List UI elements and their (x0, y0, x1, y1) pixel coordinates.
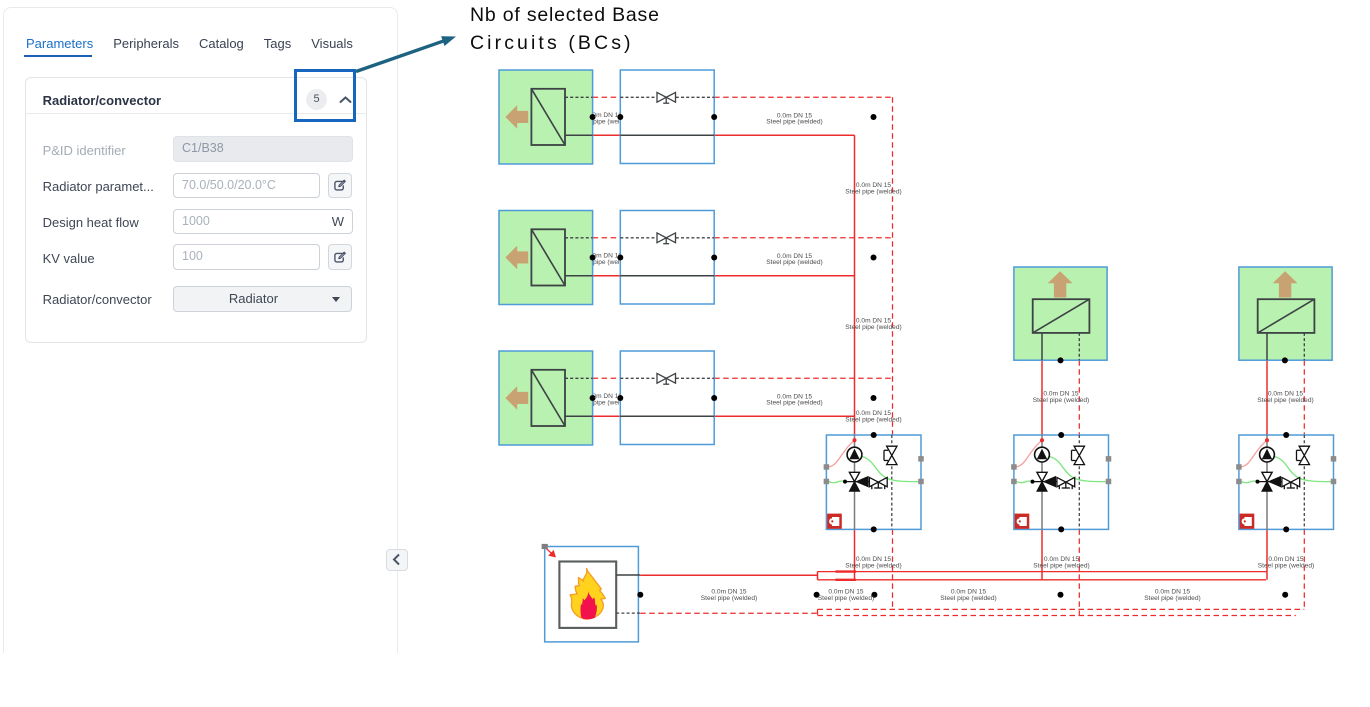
svg-text:Steel pipe (welded): Steel pipe (welded) (845, 562, 901, 569)
pipe: consumer 3 to pump group 3 (return dashed) (1303, 360, 1305, 435)
node: valve box 3 inlet (617, 395, 623, 401)
svg-text:0.0m DN 15: 0.0m DN 15 (856, 556, 892, 563)
balancing valve (1057, 477, 1075, 489)
node: valve box 2 inlet (617, 255, 623, 261)
pipe: pump group 1 to manifold (return dashed) (892, 529, 894, 609)
internal return line (dashed) (620, 237, 657, 239)
heat flow arrow (left) (505, 246, 528, 270)
parameters card (25, 77, 367, 343)
svg-text:0.0m DN 15: 0.0m DN 15 (1044, 556, 1080, 563)
stub: flow (solid) (565, 134, 593, 136)
internal return line (dashed) (620, 377, 657, 379)
thermostatic valve V3 (657, 373, 676, 384)
svg-text:0.0m DN 15: 0.0m DN 15 (777, 253, 813, 260)
radiator symbol R3 (531, 370, 565, 426)
pipe label: manifold seg 3 (1144, 589, 1200, 602)
stub: flow (solid) (565, 275, 593, 277)
pump group icon (red) (1240, 514, 1255, 529)
svg-text:Steel pipe (welded): Steel pipe (welded) (845, 324, 901, 331)
valve box 3 (blue frame) (620, 351, 714, 445)
pipe: consumer 3 to pump group 3 (flow) (1266, 360, 1268, 435)
stub: return (dashed) (1078, 333, 1080, 360)
svg-text:Steel pipe (welded): Steel pipe (welded) (701, 595, 757, 602)
stub: flow (616, 574, 640, 576)
node: consumer 2 outlet (1058, 357, 1064, 363)
top node (1283, 432, 1289, 438)
valve box 2 (blue frame) (620, 211, 714, 305)
balancing valve (869, 477, 887, 489)
insert arrow (red) (547, 549, 556, 557)
valve box 1 (blue frame) (620, 70, 714, 164)
bottom node (1283, 526, 1289, 532)
Radiator/convector dropdown row (43, 292, 152, 307)
pipe: flow valve box 3 to riser (red) (714, 415, 854, 417)
svg-text:Steel pipe (welded): Steel pipe (welded) (845, 416, 901, 423)
base circuit / pump group 1 (blue frame) (824, 432, 924, 532)
pipe: return radiator 3 to valve box (red dashed) (593, 377, 621, 379)
node on 3-way valve branch (1258, 481, 1282, 483)
pump group icon (red) (827, 514, 842, 529)
internal flow pipe (grey) (854, 435, 856, 529)
pump P3 (1260, 447, 1275, 462)
pipe label: boiler to fork (701, 589, 757, 602)
svg-text:Steel pipe (welded): Steel pipe (welded) (766, 119, 822, 126)
consumer symbol (1033, 299, 1090, 333)
pipe label: manifold seg 2 (940, 589, 996, 602)
svg-text:Steel pipe (welded): Steel pipe (welded) (766, 400, 822, 407)
sensor curve (pink) (829, 441, 854, 467)
pipe label: manifold seg 1 (818, 589, 874, 602)
stub: return (dashed) (565, 96, 593, 98)
internal flow line (620, 415, 714, 417)
node: boiler outlet (637, 592, 643, 598)
pipe: flow manifold upper (818, 571, 1268, 573)
active tab underline (24, 55, 92, 57)
stub: return (dashed) (1303, 333, 1305, 360)
stub: flow (solid) (1041, 333, 1043, 360)
pipe: return radiator 2 to valve box (red dashed) (593, 237, 621, 239)
inlet node (red) (1265, 438, 1269, 442)
pipe label (clipped): radiator 2 connection (576, 253, 632, 267)
radiator symbol R1 (531, 89, 565, 145)
pipe: return fork (817, 609, 819, 615)
pipe: return riser column 1 (dashed) (892, 97, 894, 435)
KV value row (43, 251, 95, 266)
pipe: flow radiator 2 to valve box (red) (593, 275, 621, 277)
3-way mixing valve (1037, 472, 1047, 481)
heat flow arrow (up) (1048, 271, 1073, 297)
svg-text:Steel pipe (welded): Steel pipe (welded) (818, 595, 874, 602)
pipe: flow fork (817, 572, 819, 580)
control curve (green) pump to right port (1049, 457, 1107, 482)
connection ports (grey squares) (1011, 456, 1111, 484)
inlet node (red) (853, 438, 857, 442)
3-way mixing valve (1262, 472, 1272, 481)
pipe label: pump 1 drop (845, 556, 901, 569)
pipe: flow radiator 3 to valve box (red) (593, 415, 621, 417)
internal flow pipe (grey) (1041, 435, 1043, 529)
3-way mixing valve (849, 472, 859, 481)
pipe label: pump 3 drop (1258, 556, 1314, 569)
stub: flow (solid) (1266, 333, 1268, 360)
base circuit / pump group 2 (blue frame) (1011, 432, 1111, 532)
consumer symbol (1258, 299, 1315, 333)
svg-text:Steel pipe (welded): Steel pipe (welded) (845, 188, 901, 195)
shut-off valve (return) (1072, 446, 1085, 464)
pipe label: valve box 1 to riser (766, 112, 822, 125)
shut-off valve (return) (1297, 446, 1310, 464)
top node (871, 432, 877, 438)
annotation text (470, 2, 660, 57)
pipe label (clipped): radiator 1 connection (576, 112, 632, 126)
svg-text:Steel pipe (welded): Steel pipe (welded) (1033, 562, 1089, 569)
selection count badge (306, 89, 327, 110)
pipe: flow manifold lower (818, 579, 1267, 581)
node: radiator 3 outlet (590, 395, 596, 401)
heating circuit consumer 2 (green box) (1014, 267, 1107, 360)
P&ID identifier row (43, 143, 126, 158)
node: valve box 1 outlet (711, 114, 717, 120)
control curve (green) left port to node (1016, 481, 1033, 483)
pipe label (clipped): radiator 3 connection (576, 393, 632, 407)
node: radiator 2 outlet (590, 255, 596, 261)
top node (1058, 432, 1064, 438)
svg-text:0.0m DN 15: 0.0m DN 15 (1155, 589, 1191, 596)
bottom node (871, 526, 877, 532)
shut-off valve (return) (884, 446, 897, 464)
tab bar (26, 36, 353, 51)
pipe: flow riser column 1 (854, 135, 856, 435)
internal flow pipe (grey) (1266, 435, 1268, 529)
svg-text:0.0m DN 15: 0.0m DN 15 (587, 112, 623, 119)
node on 3-way valve branch (1033, 481, 1057, 483)
boiler body (559, 562, 616, 628)
inlet node (red) (1040, 438, 1044, 442)
collapse chevron (339, 96, 352, 104)
pipe: return valve box 2 to riser (red dashed) (714, 237, 892, 239)
control curve (green) left port to node (829, 481, 846, 483)
stub: return (dashed) (565, 237, 593, 239)
pipe: return manifold upper (dashed) (818, 608, 1305, 610)
radiator unit 1 (green box) (499, 70, 593, 164)
svg-text:0.0m DN 15: 0.0m DN 15 (587, 393, 623, 400)
pipe: flow radiator 1 to valve box (red) (593, 134, 621, 136)
pump P2 (1035, 447, 1050, 462)
pipe label: consumer 3 drop (1257, 391, 1313, 404)
thermostatic valve V2 (657, 233, 676, 244)
node: valve box 1 inlet (617, 114, 623, 120)
svg-text:0.0m DN 15: 0.0m DN 15 (856, 410, 892, 417)
pipe: pump group 2 to manifold (flow) (1041, 529, 1043, 579)
svg-text:Steel pipe (welded): Steel pipe (welded) (576, 259, 632, 266)
radiator unit 3 (green box) (499, 351, 593, 445)
svg-text:Steel pipe (welded): Steel pipe (welded) (576, 119, 632, 126)
svg-text:Steel pipe (welded): Steel pipe (welded) (576, 400, 632, 407)
control curve (green) pump to right port (862, 457, 920, 482)
node: manifold fork (814, 592, 820, 598)
svg-text:0.0m DN 15: 0.0m DN 15 (1268, 556, 1304, 563)
svg-text:0.0m DN 15: 0.0m DN 15 (777, 393, 813, 400)
Design heat flow row (43, 215, 139, 230)
annotation highlight rectangle (294, 69, 356, 122)
left properties panel (3, 7, 398, 653)
base circuit / pump group 3 (blue frame) (1236, 432, 1336, 532)
Radiator parameters row (43, 179, 154, 194)
svg-text:Steel pipe (welded): Steel pipe (welded) (940, 595, 996, 602)
balancing valve (1282, 477, 1300, 489)
bottom node (1058, 526, 1064, 532)
node: riser row 3 (871, 395, 877, 401)
selection handle (542, 544, 548, 549)
svg-text:Steel pipe (welded): Steel pipe (welded) (766, 259, 822, 266)
panel collapse button (386, 549, 408, 572)
internal return line (dashed) (620, 96, 657, 98)
flame icon (570, 569, 605, 620)
pipe: boiler return (red dashed) (640, 612, 817, 614)
connection ports (grey squares) (1236, 456, 1336, 484)
svg-text:Steel pipe (welded): Steel pipe (welded) (1033, 397, 1089, 404)
svg-text:0.0m DN 15: 0.0m DN 15 (951, 589, 987, 596)
svg-text:0.0m DN 15: 0.0m DN 15 (711, 589, 747, 596)
sensor curve (pink) (1241, 441, 1266, 467)
node: manifold junction 3 (1282, 592, 1288, 598)
pipe overlap segment (flow) (835, 570, 856, 572)
radiator unit 2 (green box) (499, 211, 593, 305)
node: consumer 3 outlet (1282, 357, 1288, 363)
pipe: return valve box 3 to riser (red dashed) (714, 377, 892, 379)
pump group icon (red) (1015, 514, 1030, 529)
svg-text:0.0m DN 15: 0.0m DN 15 (587, 253, 623, 260)
pipe: return radiator 1 to valve box (red dashed) (593, 96, 621, 98)
pipe label: riser segment 2-3 (845, 318, 901, 331)
heating circuit consumer 3 (green box) (1239, 267, 1332, 360)
svg-text:Steel pipe (welded): Steel pipe (welded) (1258, 562, 1314, 569)
control curve (green) left port to node (1241, 481, 1258, 483)
pipe: boiler flow (red) (640, 574, 817, 576)
svg-text:0.0m DN 15: 0.0m DN 15 (777, 112, 813, 119)
svg-text:0.0m DN 15: 0.0m DN 15 (1043, 391, 1079, 398)
pipe label: riser segment 3-pump (845, 410, 901, 423)
control curve (green) pump to right port (1274, 457, 1332, 482)
svg-text:0.0m DN 15: 0.0m DN 15 (856, 318, 892, 325)
stub: return (dashed) (616, 612, 640, 614)
thermostatic valve V1 (657, 92, 676, 103)
pipe: consumer 2 to pump group 2 (flow) (1041, 360, 1043, 435)
stub: flow (solid) (565, 415, 593, 417)
internal return pipe (grey dashed) (1303, 435, 1305, 529)
sensor curve (pink) (1016, 441, 1041, 467)
node: riser row 1 (871, 114, 877, 120)
svg-text:0.0m DN 15: 0.0m DN 15 (1268, 391, 1304, 398)
internal return pipe (grey dashed) (891, 435, 893, 529)
radiator symbol R2 (531, 229, 565, 285)
node: manifold junction 1 (871, 592, 877, 598)
pipe: flow valve box 1 to riser (red) (714, 134, 854, 136)
stub: return (dashed) (565, 377, 593, 379)
connection ports (grey squares) (824, 456, 924, 484)
svg-text:0.0m DN 15: 0.0m DN 15 (856, 182, 892, 189)
svg-text:0.0m DN 15: 0.0m DN 15 (828, 589, 864, 596)
boiler (heat generator), selected (542, 544, 641, 642)
pump P1 (847, 447, 862, 462)
pipe: pump group 2 to manifold (return dashed) (1078, 529, 1080, 615)
heat flow arrow (left) (505, 105, 528, 129)
pipe: return manifold lower (dashed) (818, 615, 1296, 617)
node: valve box 3 outlet (711, 395, 717, 401)
pipe overlap segment (flow) (835, 579, 856, 581)
internal flow line (620, 134, 714, 136)
node: riser row 2 (871, 255, 877, 261)
pipe: consumer 2 to pump group 2 (return dashed) (1078, 360, 1080, 435)
node: radiator 1 outlet (590, 114, 596, 120)
heat flow arrow (left) (505, 386, 528, 410)
node on 3-way valve branch (845, 481, 869, 483)
pipe: pump group 1 to manifold (flow) (854, 529, 856, 579)
pipe: pump group 3 to manifold (flow) (1266, 529, 1268, 579)
pipe: return valve box 1 to riser (red dashed) (714, 96, 892, 98)
svg-text:Steel pipe (welded): Steel pipe (welded) (1257, 397, 1313, 404)
node: manifold junction 2 (1058, 592, 1064, 598)
internal return pipe (grey dashed) (1078, 435, 1080, 529)
pipe label: riser segment 1-2 (845, 182, 901, 195)
pipe label: valve box 3 to riser (766, 393, 822, 406)
pipe label: pump 2 drop (1033, 556, 1089, 569)
node: valve box 2 outlet (711, 255, 717, 261)
pipe label: consumer 2 drop (1033, 391, 1089, 404)
svg-text:Steel pipe (welded): Steel pipe (welded) (1144, 595, 1200, 602)
pipe label: valve box 2 to riser (766, 253, 822, 266)
annotation arrow (356, 36, 456, 71)
pipe: pump group 3 to manifold (return dashed) (1303, 529, 1305, 609)
internal flow line (620, 275, 714, 277)
pipe: flow valve box 2 to riser (red) (714, 275, 854, 277)
heat flow arrow (up) (1273, 271, 1298, 297)
